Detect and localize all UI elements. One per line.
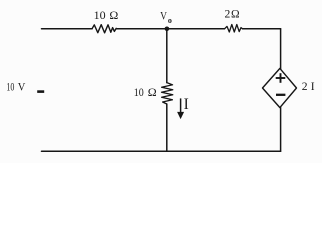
svg-text:Ω: Ω (109, 8, 118, 22)
svg-text:o: o (168, 16, 172, 25)
svg-text:Ω: Ω (231, 7, 240, 20)
wire top-left segment (42, 28, 93, 30)
svg-text:I: I (184, 96, 189, 113)
svg-text:2: 2 (302, 80, 308, 93)
svg-text:10: 10 (134, 85, 144, 99)
wire right vertical upper (280, 29, 282, 69)
wire top-middle segment (117, 28, 225, 30)
plus sign inside U1 (276, 73, 286, 83)
wire bottom (42, 150, 281, 152)
resistor R2 zigzag (225, 25, 243, 33)
svg-text:I: I (311, 80, 315, 93)
wire middle vertical lower (166, 104, 168, 151)
resistor R1 zigzag (92, 25, 116, 33)
svg-text:10: 10 (94, 8, 106, 22)
svg-text:2: 2 (225, 7, 231, 20)
svg-text:V: V (18, 79, 26, 93)
svg-text:V: V (160, 10, 168, 22)
wire top-right segment (243, 28, 281, 30)
svg-text:Ω: Ω (148, 85, 157, 99)
current arrow I (178, 98, 183, 118)
voltage source V1 minus sign (37, 90, 44, 93)
wire middle vertical upper (166, 29, 168, 83)
wire right vertical lower (280, 108, 282, 152)
svg-text:10: 10 (6, 79, 14, 93)
dependent source U1 diamond (263, 68, 297, 107)
minus sign inside U1 (276, 94, 285, 96)
node Vo junction dot (165, 27, 170, 32)
resistor R3 vertical zigzag (162, 83, 173, 104)
